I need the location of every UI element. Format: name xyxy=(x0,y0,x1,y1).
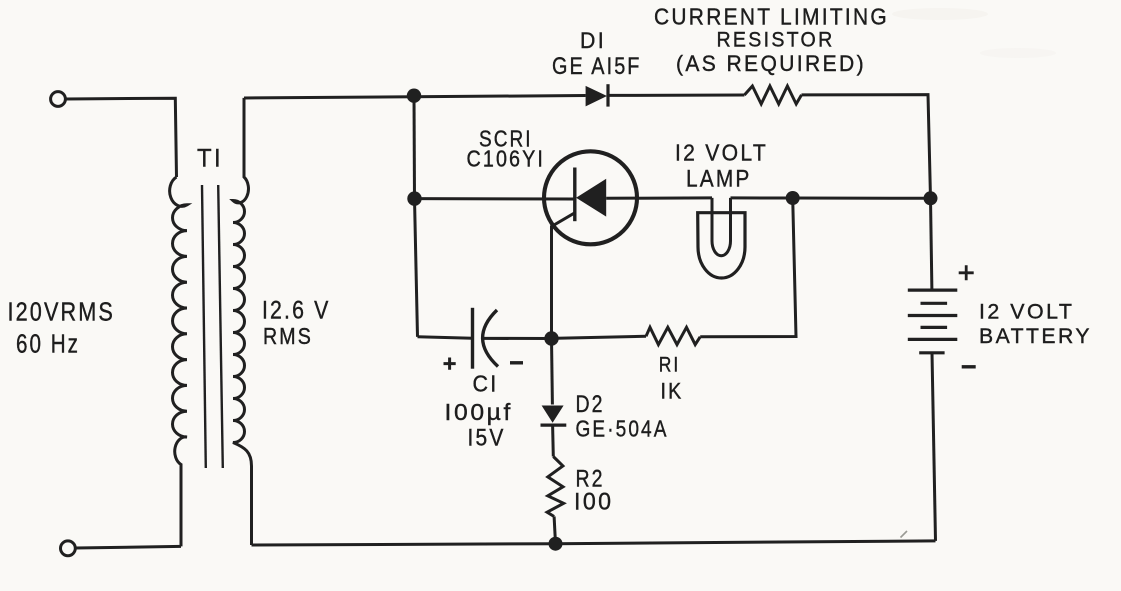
diode D2 bar xyxy=(541,424,567,427)
svg-text:RI: RI xyxy=(659,353,681,377)
diode D1 bar xyxy=(606,84,609,106)
svg-text:60 Hz: 60 Hz xyxy=(16,331,80,359)
battery plate short 3 xyxy=(919,351,944,354)
wire D2 to R2 xyxy=(551,425,555,456)
scan smudge right xyxy=(980,48,1056,58)
transformer T1 primary winding xyxy=(170,177,187,546)
wire top: D1 to resistor xyxy=(608,94,745,97)
resistor R1 zigzag xyxy=(646,327,700,344)
svg-text:I5V: I5V xyxy=(468,425,506,452)
current limiting resistor zigzag xyxy=(744,86,801,104)
svg-text:RESISTOR: RESISTOR xyxy=(717,28,835,52)
battery plate short 1 xyxy=(921,302,948,305)
wire battery top lead xyxy=(931,198,932,290)
diode D1 triangle xyxy=(586,86,607,107)
svg-text:RMS: RMS xyxy=(263,323,313,349)
battery plate long 2 xyxy=(908,314,958,317)
resistor R2 zigzag xyxy=(547,457,564,517)
battery plate short 2 xyxy=(921,326,948,329)
capacitor C1 plate left xyxy=(471,308,474,369)
svg-text:LAMP: LAMP xyxy=(686,166,752,193)
minus sign C1 xyxy=(510,361,523,364)
wire battery bottom lead xyxy=(932,353,936,541)
lamp filament inner xyxy=(712,198,731,256)
battery plate long 3 xyxy=(908,338,958,341)
SCR triangle xyxy=(576,179,606,217)
svg-text:(AS REQUIRED): (AS REQUIRED) xyxy=(676,51,866,76)
svg-text:D2: D2 xyxy=(576,391,605,418)
transformer core line 2 xyxy=(218,185,223,468)
svg-text:BATTERY: BATTERY xyxy=(979,324,1092,348)
wire SCR anode to lamp xyxy=(606,196,712,199)
capacitor C1 plate right curved xyxy=(483,310,498,367)
scan smudge top-right xyxy=(892,8,988,20)
wire R1 to lamp node xyxy=(700,198,796,337)
scan artifact tick xyxy=(901,531,908,538)
svg-text:I2 VOLT: I2 VOLT xyxy=(979,300,1075,324)
wire R2 to bottom node xyxy=(554,517,555,544)
transformer core line 1 xyxy=(202,185,206,468)
wire top-right corner down to battery node xyxy=(802,95,931,199)
lamp bulb outer xyxy=(698,213,745,278)
svg-text:I2.6 V: I2.6 V xyxy=(262,297,331,325)
svg-text:TI: TI xyxy=(197,145,223,173)
svg-text:I2 VOLT: I2 VOLT xyxy=(675,140,768,166)
SCR circle xyxy=(544,151,637,244)
wire top: secondary to D1 xyxy=(244,96,586,99)
wire gate node to R1 xyxy=(552,336,647,338)
battery plate long 1 xyxy=(908,289,958,292)
SCR U1 gate wire xyxy=(552,213,575,339)
terminal top-left xyxy=(51,92,66,107)
svg-text:GE·504A: GE·504A xyxy=(576,416,669,442)
wire left vertical upper xyxy=(413,96,417,199)
diode D2 triangle xyxy=(542,406,564,423)
svg-text:I00: I00 xyxy=(574,489,614,516)
svg-text:CURRENT LIMITING: CURRENT LIMITING xyxy=(654,4,889,30)
svg-text:CI: CI xyxy=(473,371,499,397)
svg-text:DI: DI xyxy=(580,28,606,53)
junction node mid-left xyxy=(407,191,421,205)
svg-text:GE AI5F: GE AI5F xyxy=(552,53,642,80)
terminal bottom-left xyxy=(61,541,76,556)
plus sign battery xyxy=(959,265,974,280)
wire gate node to D2 xyxy=(550,339,554,405)
wire bottom-left xyxy=(75,546,181,548)
wire left vertical lower xyxy=(415,199,418,337)
SCR cathode bar xyxy=(573,168,576,222)
plus sign C1 xyxy=(444,358,456,370)
junction node top-left vertical xyxy=(407,89,421,103)
wire top-left to transformer xyxy=(65,98,176,177)
junction node bottom xyxy=(549,537,563,551)
svg-text:IK: IK xyxy=(661,379,684,404)
junction node battery top xyxy=(924,191,938,205)
svg-text:C106YI: C106YI xyxy=(467,146,546,172)
svg-text:I20VRMS: I20VRMS xyxy=(8,299,116,327)
svg-text:I00µf: I00µf xyxy=(445,399,514,425)
wire lamp to battery node xyxy=(731,196,931,199)
wire to capacitor xyxy=(418,337,473,338)
wire bottom main xyxy=(252,541,936,545)
junction node lamp right xyxy=(786,191,800,205)
wire capacitor to gate node xyxy=(484,337,552,340)
transformer T1 secondary winding xyxy=(233,98,252,545)
wire mid to SCR cathode xyxy=(415,197,576,200)
junction node gate/capacitor xyxy=(544,331,558,345)
minus sign battery xyxy=(962,365,976,368)
